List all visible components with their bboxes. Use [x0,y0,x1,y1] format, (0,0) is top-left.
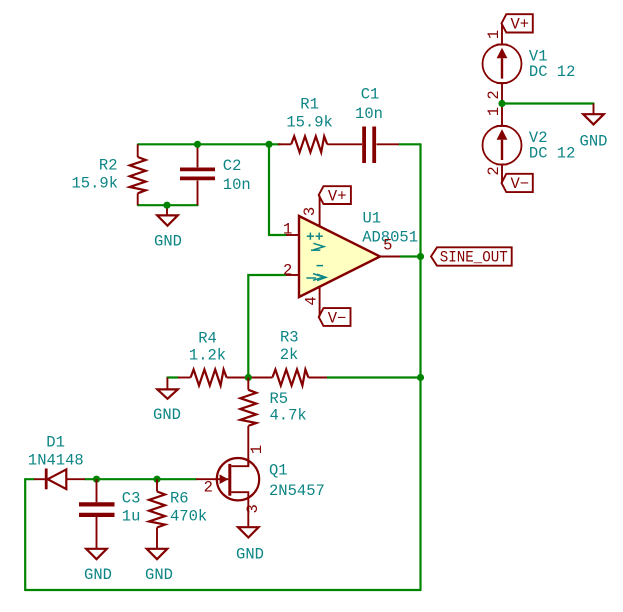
svg-text:SINE_OUT: SINE_OUT [440,249,508,267]
svg-text:D1: D1 [46,433,65,451]
svg-text:GND: GND [580,132,608,150]
svg-text:2: 2 [485,90,503,99]
resistor R5 [240,378,306,467]
diode D1 [28,433,85,489]
junction R1 branch [265,141,272,148]
svg-text:1: 1 [485,30,503,39]
resistor R2 [71,144,145,205]
ground C3 [84,549,112,584]
svg-text:R4: R4 [198,329,217,347]
wire R2/C2 bottom [138,204,198,206]
svg-text:2: 2 [204,479,213,497]
wire top rail right [399,143,421,145]
junction output node [417,253,424,260]
interior arrow top [313,243,324,250]
svg-text:V−: V− [328,309,347,327]
wire to D1 [25,478,34,480]
resistor R6 [149,479,207,549]
voltage source V2 [483,104,576,184]
svg-text:10n: 10n [223,176,251,194]
op-amp U1 [283,196,418,317]
svg-text:2N5457: 2N5457 [269,482,325,500]
wire D1 to Q1 gate [85,478,196,480]
svg-text:R3: R3 [280,328,299,346]
capacitor C3 [79,479,140,549]
capacitor C2 [180,144,251,205]
svg-text:C3: C3 [122,490,141,508]
interior minus [317,265,324,267]
svg-text:1: 1 [248,445,266,454]
global label V- op-amp [319,308,351,327]
interior plus marks [306,233,326,281]
global label SINE_OUT [431,247,512,266]
svg-text:Q1: Q1 [269,462,288,480]
svg-text:GND: GND [154,232,182,250]
svg-text:2k: 2k [280,346,299,364]
svg-text:V+: V+ [510,15,529,33]
voltage source V1 [483,25,576,104]
svg-text:C2: C2 [223,157,242,175]
ground R2/C2 [154,205,182,250]
ground Q1 [236,527,264,563]
wire R3 to right rail [327,376,421,378]
svg-text:4.7k: 4.7k [270,407,307,425]
transistor Q1 [196,445,325,527]
svg-text:GND: GND [236,546,264,564]
svg-text:V−: V− [510,175,529,193]
global label V+ op-amp [319,186,351,205]
svg-text:R5: R5 [270,390,289,408]
svg-text:C1: C1 [361,86,380,104]
wire pin2 to R-node [248,275,286,378]
svg-text:R2: R2 [99,156,118,174]
junction V1/V2 [498,100,505,107]
wire top rail [138,143,280,145]
svg-text:GND: GND [153,406,181,424]
svg-text:1N4148: 1N4148 [28,451,84,469]
wire junction to pin1 [269,144,286,235]
junction D1/C3 [93,476,100,483]
svg-text:R1: R1 [300,96,319,114]
wire right rail [419,144,421,590]
global label V+ top [502,14,533,33]
svg-text:1: 1 [485,107,503,116]
svg-text:15.9k: 15.9k [286,114,333,132]
wire left rail [24,479,26,590]
svg-text:3: 3 [301,207,319,216]
global label V- bottom [502,174,533,193]
svg-text:2: 2 [485,166,503,175]
resistor R3 [248,328,327,385]
junction R4/R3/R5 [245,374,252,381]
wire R4 gnd tap [167,376,178,378]
ground right of sources [580,104,608,151]
ground R6 [145,549,173,584]
ground R4 [153,378,181,424]
svg-text:V+: V+ [328,187,347,205]
svg-text:4: 4 [303,296,321,305]
svg-text:2: 2 [283,262,292,280]
svg-text:GND: GND [84,566,112,584]
svg-text:1.2k: 1.2k [189,346,226,364]
wire V sources mid to GND [502,102,594,104]
svg-text:10n: 10n [355,105,383,123]
junction R2 top rail [194,141,201,148]
svg-text:15.9k: 15.9k [71,175,118,193]
wire bottom rail [25,589,420,591]
svg-text:470k: 470k [170,508,207,526]
svg-text:U1: U1 [363,209,382,227]
svg-text:1u: 1u [122,508,141,526]
svg-text:1: 1 [283,221,292,239]
resistor R4 [178,329,248,385]
interior arrow bottom [313,274,324,281]
resistor R1 [278,96,345,153]
junction gnd tap [163,202,170,209]
junction R6 [153,476,160,483]
junction R3 right rail [417,374,424,381]
svg-text:DC 12: DC 12 [529,145,576,163]
svg-text:5: 5 [383,236,392,254]
svg-text:DC 12: DC 12 [529,63,576,81]
wire output [400,255,421,257]
svg-text:R6: R6 [170,490,189,508]
svg-text:GND: GND [145,566,173,584]
svg-text:3: 3 [244,504,262,513]
capacitor C1 [345,86,399,163]
